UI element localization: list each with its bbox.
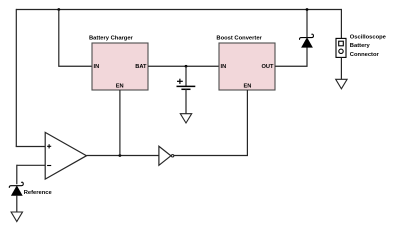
ground reference: [11, 212, 22, 222]
svg-text:Connector: Connector: [350, 52, 380, 58]
diode D1: [299, 34, 313, 47]
boost converter U2: [216, 36, 275, 90]
svg-text:IN: IN: [221, 64, 227, 70]
svg-text:Oscilloscope: Oscilloscope: [350, 35, 387, 41]
svg-text:Boost Converter: Boost Converter: [216, 36, 262, 42]
svg-text:Reference: Reference: [24, 190, 53, 196]
wire op-amp minus input: [17, 164, 45, 166]
wire inverter to boost EN: [174, 90, 248, 156]
wire rail down to connector: [340, 9, 342, 39]
node battery junction: [185, 65, 188, 68]
wire junction to battery charger EN: [119, 90, 121, 156]
battery B1: [177, 66, 196, 113]
svg-text:BAT: BAT: [135, 64, 147, 70]
wire op-amp output: [87, 155, 159, 157]
label connector: [350, 35, 387, 58]
svg-text:EN: EN: [116, 84, 124, 90]
battery charger U1: [89, 36, 148, 90]
wire BAT to boost IN: [148, 65, 219, 67]
diode reference: [9, 182, 23, 195]
wire top rail: [16, 9, 341, 11]
inverter U4: [159, 146, 174, 165]
connector J1: [336, 38, 346, 57]
wire minus input to reference: [16, 165, 18, 185]
ground connector: [336, 79, 347, 89]
node input junction: [57, 8, 60, 11]
node output junction: [119, 154, 122, 157]
svg-text:Battery Charger: Battery Charger: [89, 36, 134, 42]
op-amp U3: [45, 132, 86, 179]
svg-text:EN: EN: [243, 84, 251, 90]
wire OUT to diode: [275, 47, 307, 66]
wire op-amp plus input: [16, 146, 46, 148]
svg-text:Battery: Battery: [350, 43, 371, 49]
wire junction down to IN: [59, 10, 92, 67]
wire connector to ground: [340, 57, 342, 79]
wire diode to rail: [306, 10, 308, 38]
node diode junction: [306, 8, 309, 11]
wire reference to ground: [16, 195, 18, 212]
ground battery: [180, 114, 191, 123]
svg-text:OUT: OUT: [261, 64, 274, 70]
svg-text:IN: IN: [94, 64, 100, 70]
wire left rail: [15, 9, 17, 147]
